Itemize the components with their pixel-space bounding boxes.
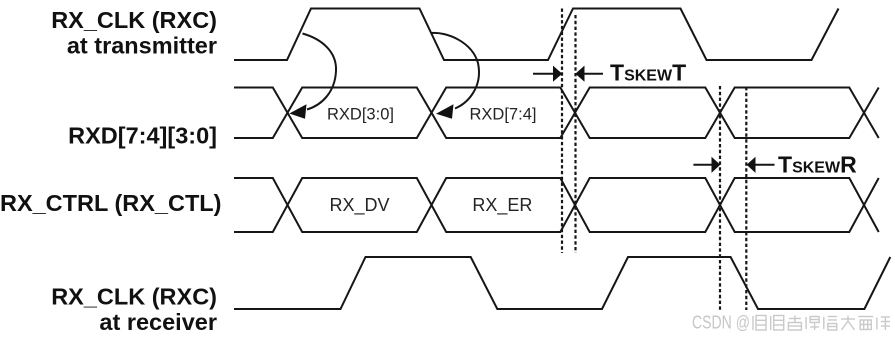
svg-text:RXD[7:4]: RXD[7:4] [470, 106, 537, 124]
svg-text:RX_DV: RX_DV [329, 195, 389, 216]
svg-text:at transmitter: at transmitter [67, 33, 217, 59]
svg-text:CSDN @: CSDN @ [692, 313, 750, 333]
svg-text:RXD[7:4][3:0]: RXD[7:4][3:0] [68, 123, 217, 149]
svg-text:at receiver: at receiver [99, 309, 217, 335]
svg-text:RX_CLK (RXC): RX_CLK (RXC) [51, 7, 217, 33]
svg-text:RX_ER: RX_ER [472, 195, 532, 216]
svg-text:RX_CTRL (RX_CTL): RX_CTRL (RX_CTL) [0, 190, 222, 216]
svg-text:RXD[3:0]: RXD[3:0] [327, 106, 394, 124]
svg-text:RX_CLK (RXC): RX_CLK (RXC) [51, 284, 217, 310]
